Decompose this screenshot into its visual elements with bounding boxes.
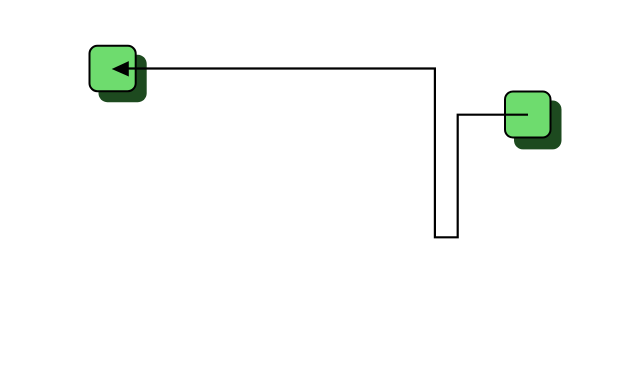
wire xyxy=(127,69,528,238)
arrowhead xyxy=(112,61,129,76)
node A shadow xyxy=(99,55,147,102)
node B shadow xyxy=(514,101,562,150)
node A xyxy=(90,46,136,91)
node B xyxy=(505,92,551,138)
